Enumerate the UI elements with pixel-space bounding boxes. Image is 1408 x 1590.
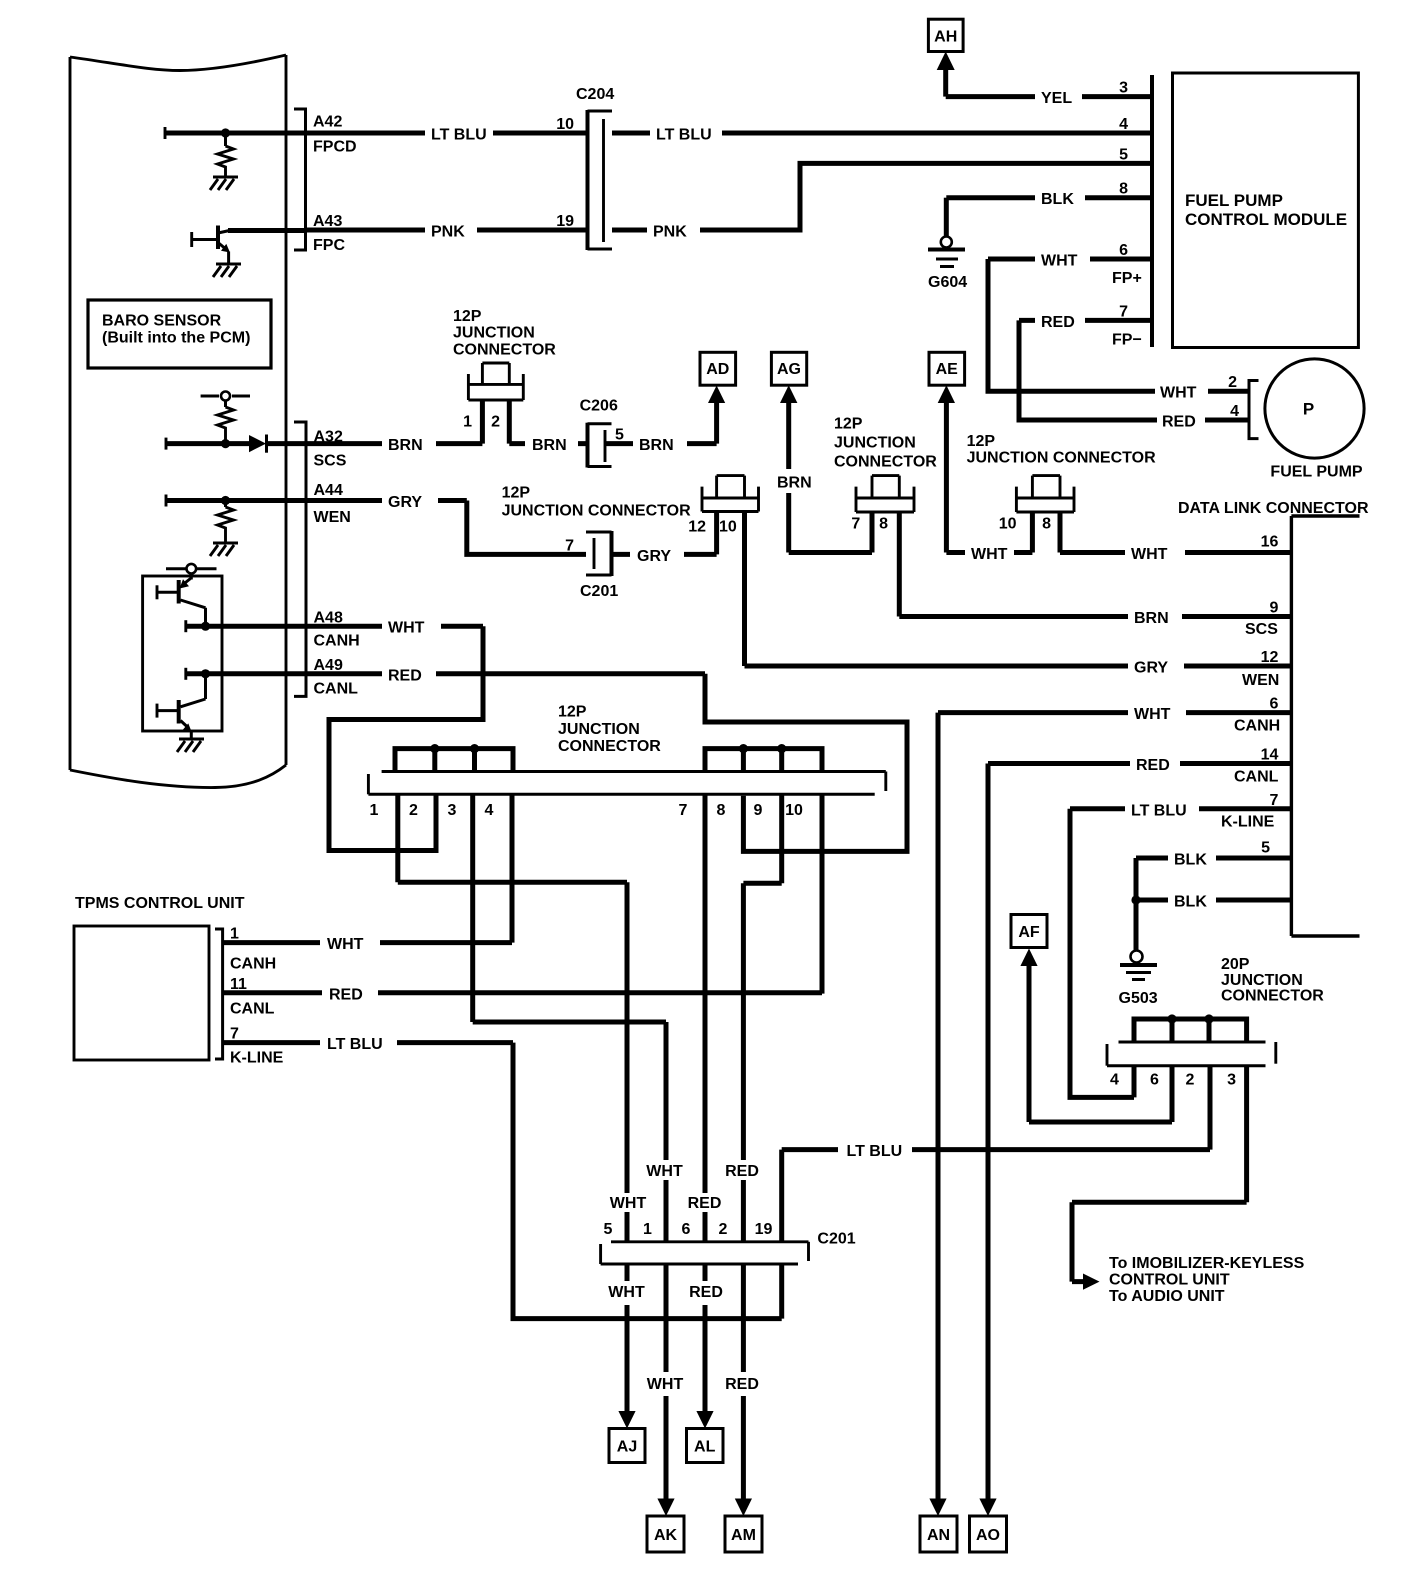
svg-text:SCS: SCS — [314, 453, 347, 470]
svg-text:WEN: WEN — [1242, 672, 1279, 689]
svg-text:C201: C201 — [580, 583, 618, 600]
svg-text:JUNCTION: JUNCTION — [1221, 972, 1303, 989]
connector box AD — [700, 352, 736, 385]
connector box AO — [970, 1516, 1007, 1552]
PCM block outline — [70, 55, 286, 788]
svg-text:6: 6 — [1150, 1071, 1159, 1088]
wire BRN pin 8 to DLC pin 9 — [899, 512, 1291, 617]
BARO SENSOR label box — [88, 300, 271, 368]
wire A43 collector to pin — [228, 228, 306, 233]
svg-text:8: 8 — [1119, 181, 1128, 198]
junction node A44 — [221, 496, 230, 505]
wire A42 LT BLU to C204 — [306, 131, 588, 136]
svg-text:3: 3 — [1227, 1071, 1236, 1088]
wire WHT C201 pin 5 to AJ — [625, 1264, 630, 1411]
svg-text:5: 5 — [1119, 146, 1128, 163]
bus jumper pins 7-10 — [705, 749, 822, 772]
wire A49 — [184, 668, 187, 680]
power symbol (CAN block) — [166, 567, 217, 570]
svg-text:WHT: WHT — [1160, 385, 1197, 402]
svg-text:WHT: WHT — [327, 936, 364, 953]
svg-text:GRY: GRY — [1134, 660, 1168, 677]
wire YEL to module pin 3 — [946, 94, 1152, 99]
svg-text:BLK: BLK — [1041, 191, 1074, 208]
svg-text:AM: AM — [731, 1527, 756, 1544]
svg-text:FP+: FP+ — [1112, 270, 1142, 287]
svg-text:2: 2 — [1228, 374, 1237, 391]
ground (Q3 emitter) — [177, 739, 204, 752]
svg-text:RED: RED — [1041, 314, 1075, 331]
svg-text:6: 6 — [1119, 242, 1128, 259]
svg-text:10: 10 — [999, 516, 1017, 533]
svg-text:AD: AD — [706, 361, 729, 378]
wire WHT AE to junction connector pin 10 — [946, 512, 1032, 553]
svg-text:FUEL PUMP: FUEL PUMP — [1270, 464, 1362, 481]
20P junction connector (bus bar) — [1119, 1041, 1266, 1044]
junction node A49 — [201, 669, 210, 678]
wire GRY A44 to C201 — [306, 501, 586, 555]
svg-text:CANL: CANL — [1234, 768, 1279, 785]
svg-text:2: 2 — [719, 1221, 728, 1238]
svg-text:1: 1 — [370, 802, 379, 819]
wire RED to fuel pump pin 4 — [1019, 320, 1249, 420]
svg-text:RED: RED — [688, 1195, 722, 1212]
svg-text:CONTROL MODULE: CONTROL MODULE — [1185, 210, 1347, 229]
svg-text:9: 9 — [1269, 600, 1278, 617]
wire LT BLU TPMS K-LINE to C201 pin 19 — [223, 1043, 782, 1319]
svg-text:C206: C206 — [580, 398, 618, 415]
svg-text:6: 6 — [1269, 696, 1278, 713]
svg-text:10: 10 — [719, 518, 737, 535]
12P junction connector (pins 12/10) — [702, 476, 759, 512]
svg-text:5: 5 — [615, 427, 624, 444]
svg-text:19: 19 — [556, 213, 574, 230]
svg-text:AJ: AJ — [617, 1439, 637, 1456]
pin 2 wire — [507, 400, 512, 444]
svg-text:BRN: BRN — [639, 437, 674, 454]
svg-text:RED: RED — [1136, 757, 1170, 774]
svg-text:CONTROL UNIT: CONTROL UNIT — [1109, 1272, 1230, 1289]
wire BRN to C206 — [509, 441, 587, 446]
resistor (A44) — [224, 502, 227, 507]
svg-text:1: 1 — [643, 1221, 652, 1238]
svg-text:TPMS CONTROL UNIT: TPMS CONTROL UNIT — [75, 895, 245, 912]
svg-text:FPC: FPC — [313, 237, 345, 254]
svg-text:10: 10 — [556, 116, 574, 133]
svg-text:7: 7 — [679, 802, 688, 819]
svg-text:BARO SENSOR: BARO SENSOR — [102, 313, 222, 330]
svg-text:WHT: WHT — [647, 1376, 684, 1393]
ground (Q1 emitter) — [213, 264, 241, 277]
wire GRY C201 to 12P junction connector — [612, 512, 717, 555]
svg-text:FUEL PUMP: FUEL PUMP — [1185, 191, 1283, 210]
svg-text:To AUDIO UNIT: To AUDIO UNIT — [1109, 1288, 1225, 1305]
wire A48 — [184, 620, 187, 632]
wire pin 1 to C201 pin 5 — [398, 794, 627, 1242]
svg-text:7: 7 — [1269, 792, 1278, 809]
svg-text:JUNCTION CONNECTOR: JUNCTION CONNECTOR — [502, 502, 691, 519]
12P junction connector (pins 10/8) — [1016, 476, 1074, 512]
svg-text:AF: AF — [1018, 924, 1040, 941]
svg-text:DATA LINK CONNECTOR: DATA LINK CONNECTOR — [1178, 500, 1369, 517]
svg-text:CANL: CANL — [230, 1000, 275, 1017]
svg-text:AE: AE — [936, 361, 959, 378]
svg-text:A42: A42 — [313, 114, 342, 131]
svg-text:A43: A43 — [313, 213, 342, 230]
bus jumper 20P — [1134, 1019, 1247, 1042]
svg-text:7: 7 — [1119, 303, 1128, 320]
diode D1 — [249, 435, 266, 452]
arrow from junction connector pin 10 to AE — [938, 385, 955, 403]
svg-text:WHT: WHT — [608, 1284, 645, 1301]
svg-text:8: 8 — [879, 516, 888, 533]
svg-text:19: 19 — [755, 1221, 773, 1238]
svg-text:K-LINE: K-LINE — [230, 1050, 284, 1067]
fuel pump control module U1 — [1150, 75, 1154, 347]
svg-text:RED: RED — [689, 1284, 723, 1301]
connector box AG — [771, 352, 806, 385]
svg-text:WHT: WHT — [610, 1195, 647, 1212]
svg-text:RED: RED — [725, 1163, 759, 1180]
svg-text:5: 5 — [1261, 840, 1270, 857]
svg-text:AL: AL — [694, 1439, 716, 1456]
12P junction connector (pins 7/8) — [856, 476, 914, 512]
pin 10 wire GRY to DLC pin 12 — [745, 512, 1292, 667]
connector box AH — [928, 19, 963, 51]
wire WHT TPMS CANH — [223, 940, 512, 945]
svg-text:FPCD: FPCD — [313, 139, 357, 156]
svg-text:12: 12 — [688, 518, 706, 535]
junction node A32 — [221, 439, 230, 448]
wire RED DLC pin 14 CANL to AO — [988, 764, 1291, 1499]
transistor Q3 (CANL) — [181, 674, 206, 707]
svg-text:CANH: CANH — [1234, 718, 1280, 735]
svg-text:BLK: BLK — [1174, 852, 1207, 869]
svg-text:RED: RED — [725, 1376, 759, 1393]
connector C204 — [586, 110, 590, 250]
svg-text:FP−: FP− — [1112, 332, 1142, 349]
svg-text:1: 1 — [463, 414, 472, 431]
svg-text:AH: AH — [934, 29, 957, 46]
pin 1 wire — [480, 400, 485, 444]
ground G604 — [944, 198, 949, 237]
svg-text:7: 7 — [230, 1026, 239, 1043]
pin bracket A42/A43 — [294, 109, 306, 250]
svg-text:16: 16 — [1261, 534, 1279, 551]
svg-text:BRN: BRN — [388, 437, 423, 454]
svg-text:WHT: WHT — [1134, 706, 1171, 723]
svg-text:BRN: BRN — [532, 437, 567, 454]
svg-text:3: 3 — [1119, 80, 1128, 97]
transistor Q2 (CANH) — [190, 574, 193, 580]
svg-text:K-LINE: K-LINE — [1221, 814, 1275, 831]
svg-text:C204: C204 — [576, 86, 614, 103]
svg-text:WHT: WHT — [971, 546, 1008, 563]
wire 20P pin 6 to AF — [1029, 965, 1172, 1122]
svg-text:LT BLU: LT BLU — [656, 127, 712, 144]
resistor (A32 pull-up) — [224, 401, 227, 408]
connector box AK — [647, 1516, 684, 1552]
wire A32 — [165, 438, 168, 450]
svg-text:To IMOBILIZER-KEYLESS: To IMOBILIZER-KEYLESS — [1109, 1255, 1305, 1272]
connector box AE — [929, 352, 965, 385]
junction node BLK — [1131, 895, 1140, 904]
pin bracket A32-A49 — [294, 422, 306, 696]
svg-text:CANH: CANH — [314, 632, 360, 649]
svg-text:AK: AK — [654, 1527, 678, 1544]
connector box AN — [920, 1516, 957, 1552]
wire BRN C206 to AD — [605, 402, 717, 444]
svg-text:10: 10 — [785, 802, 803, 819]
svg-text:4: 4 — [1230, 403, 1239, 420]
svg-text:CONNECTOR: CONNECTOR — [558, 738, 661, 755]
svg-text:AN: AN — [927, 1527, 950, 1544]
wire WHT DLC pin 6 CANH to AN — [938, 713, 1291, 1499]
wire RED C201 pin 2 to AM — [741, 1264, 746, 1499]
connector box AJ — [609, 1429, 645, 1463]
power symbol (A44 pull-up... actually pull-down resistor) wire A44 — [165, 495, 168, 507]
svg-text:12: 12 — [1261, 649, 1279, 666]
arrow to AH — [937, 52, 955, 71]
svg-text:YEL: YEL — [1041, 90, 1072, 107]
data link connector — [1291, 516, 1359, 936]
connector C206 — [586, 423, 590, 468]
svg-text:G503: G503 — [1119, 990, 1158, 1007]
wire BLK to DLC — [1136, 898, 1291, 903]
svg-text:12P: 12P — [834, 416, 863, 433]
wire pin 10 to TPMS CANL — [820, 794, 825, 993]
svg-text:8: 8 — [1042, 516, 1051, 533]
wire 20P pin 3 to immobilizer — [1072, 1066, 1247, 1282]
wire RED TPMS CANL — [223, 990, 822, 995]
wire WHT A48 to 12P junction connector pin 2 — [306, 626, 483, 850]
PCM CAN transistor block box — [143, 576, 222, 731]
wire BLK module pin 8 — [946, 195, 1152, 200]
connector C201 (bus bar) — [611, 1240, 809, 1243]
wire LT BLU from C204 to module pin 4 — [612, 131, 1152, 136]
svg-text:20P: 20P — [1221, 956, 1250, 973]
svg-text:G604: G604 — [928, 274, 967, 291]
svg-text:BRN: BRN — [777, 475, 812, 492]
svg-text:9: 9 — [754, 802, 763, 819]
svg-text:JUNCTION: JUNCTION — [558, 721, 640, 738]
transistor Q1 (FPC driver) — [190, 232, 193, 247]
wire LT BLU C201 pin 19 to 20P junction connector pin 2 — [782, 1066, 1210, 1242]
svg-text:JUNCTION: JUNCTION — [834, 435, 916, 452]
bus jumper pins 1-4 — [395, 749, 513, 772]
wire pin 3 to C201 pin 1 — [473, 794, 666, 1242]
svg-text:JUNCTION CONNECTOR: JUNCTION CONNECTOR — [967, 449, 1156, 466]
svg-text:SCS: SCS — [1245, 621, 1278, 638]
svg-text:LT BLU: LT BLU — [327, 1036, 383, 1053]
svg-text:1: 1 — [230, 926, 239, 943]
12P junction connector (pins 1/2) — [468, 363, 523, 400]
wire pin 4 to TPMS CANH — [510, 794, 515, 942]
svg-text:12P: 12P — [502, 485, 531, 502]
svg-text:12P: 12P — [453, 308, 482, 325]
junction node A48 — [201, 622, 210, 631]
svg-text:12P: 12P — [558, 704, 587, 721]
wire RED module pin 7 FP- — [1019, 318, 1152, 323]
wire pin 9 to C201 pin 2 — [743, 794, 781, 1242]
svg-text:LT BLU: LT BLU — [431, 127, 487, 144]
wire WHT pin 8 to DLC pin 16 — [1060, 512, 1291, 553]
svg-text:WHT: WHT — [1041, 253, 1078, 270]
wire WHT C201 pin 1 to AK — [664, 1264, 669, 1499]
wire PNK from C204 to module pin 5 — [612, 163, 1152, 230]
wire BRN A32 to junction connector — [306, 441, 482, 446]
arrow from junction connector pin 7 to AG — [780, 385, 797, 403]
svg-text:WEN: WEN — [314, 509, 351, 526]
svg-text:GRY: GRY — [637, 548, 671, 565]
svg-text:4: 4 — [1110, 1071, 1119, 1088]
ground (A44 resistor) — [210, 543, 238, 556]
fuel pump bracket — [1249, 381, 1259, 439]
connector box AL — [687, 1429, 724, 1463]
connector box AM — [725, 1516, 762, 1552]
svg-text:CANL: CANL — [314, 680, 359, 697]
svg-text:JUNCTION: JUNCTION — [453, 325, 535, 342]
svg-text:3: 3 — [448, 802, 457, 819]
svg-text:WHT: WHT — [1131, 546, 1168, 563]
wire WHT to fuel pump pin 2 — [988, 259, 1249, 391]
svg-text:7: 7 — [565, 537, 574, 554]
svg-text:LT BLU: LT BLU — [847, 1143, 903, 1160]
connector box AF — [1011, 915, 1047, 948]
wire RED A49 to 12P junction connector pin 8 — [306, 674, 907, 852]
svg-text:CANH: CANH — [230, 956, 276, 973]
svg-text:RED: RED — [388, 667, 422, 684]
svg-text:GRY: GRY — [388, 494, 422, 511]
ground (A42 resistor) — [210, 177, 238, 190]
wire A43 PNK to C204 — [306, 228, 588, 233]
fuel pump P — [1265, 359, 1364, 458]
svg-text:A44: A44 — [314, 482, 343, 499]
12P junction connector (bus bar 1-10) — [382, 770, 886, 773]
svg-text:6: 6 — [682, 1221, 691, 1238]
svg-text:WHT: WHT — [388, 620, 425, 637]
svg-text:2: 2 — [409, 802, 418, 819]
svg-text:14: 14 — [1261, 747, 1279, 764]
connector C201 (in-line) — [586, 532, 612, 575]
svg-text:7: 7 — [851, 516, 860, 533]
ground G503 — [1131, 951, 1143, 963]
svg-text:LT BLU: LT BLU — [1131, 802, 1187, 819]
PCM A42 circuit: wire — [164, 127, 167, 139]
svg-text:PNK: PNK — [653, 224, 687, 241]
svg-text:RED: RED — [329, 986, 363, 1003]
wire WHT module pin 6 FP+ — [988, 257, 1152, 262]
svg-text:5: 5 — [604, 1221, 613, 1238]
wire pin 7 to C201 pin 6 — [703, 794, 708, 1242]
wire BLK DLC pin 5 to G503 — [1136, 858, 1291, 950]
svg-text:RED: RED — [1162, 414, 1196, 431]
junction node on A42 — [221, 128, 230, 137]
svg-text:PNK: PNK — [431, 224, 465, 241]
svg-text:8: 8 — [717, 802, 726, 819]
svg-text:BLK: BLK — [1174, 894, 1207, 911]
svg-text:BRN: BRN — [1134, 610, 1169, 627]
svg-text:4: 4 — [485, 802, 494, 819]
svg-text:2: 2 — [491, 414, 500, 431]
TPMS control unit box — [74, 926, 209, 1060]
power symbol (A32 pull-up) — [201, 395, 250, 398]
svg-text:CONNECTOR: CONNECTOR — [1221, 988, 1324, 1005]
wire RED C201 pin 6 to AL — [703, 1264, 708, 1411]
svg-text:2: 2 — [1186, 1071, 1195, 1088]
wire LT BLU DLC pin 7 K-LINE to 20P junction connector pin 4 — [1070, 809, 1291, 1098]
svg-text:4: 4 — [1119, 116, 1128, 133]
TPMS pin bracket — [215, 929, 223, 1059]
svg-text:C201: C201 — [817, 1231, 855, 1248]
svg-text:CONNECTOR: CONNECTOR — [834, 454, 937, 471]
svg-text:11: 11 — [230, 976, 247, 993]
svg-text:12P: 12P — [967, 433, 996, 450]
svg-text:P: P — [1303, 400, 1314, 419]
svg-text:AG: AG — [777, 361, 801, 378]
arrow to AD — [708, 386, 725, 404]
svg-text:WHT: WHT — [646, 1163, 683, 1180]
svg-text:AO: AO — [976, 1527, 1000, 1544]
svg-text:CONNECTOR: CONNECTOR — [453, 342, 556, 359]
svg-text:(Built into the PCM): (Built into the PCM) — [102, 330, 250, 347]
resistor (A42 pull-down) — [224, 135, 227, 146]
